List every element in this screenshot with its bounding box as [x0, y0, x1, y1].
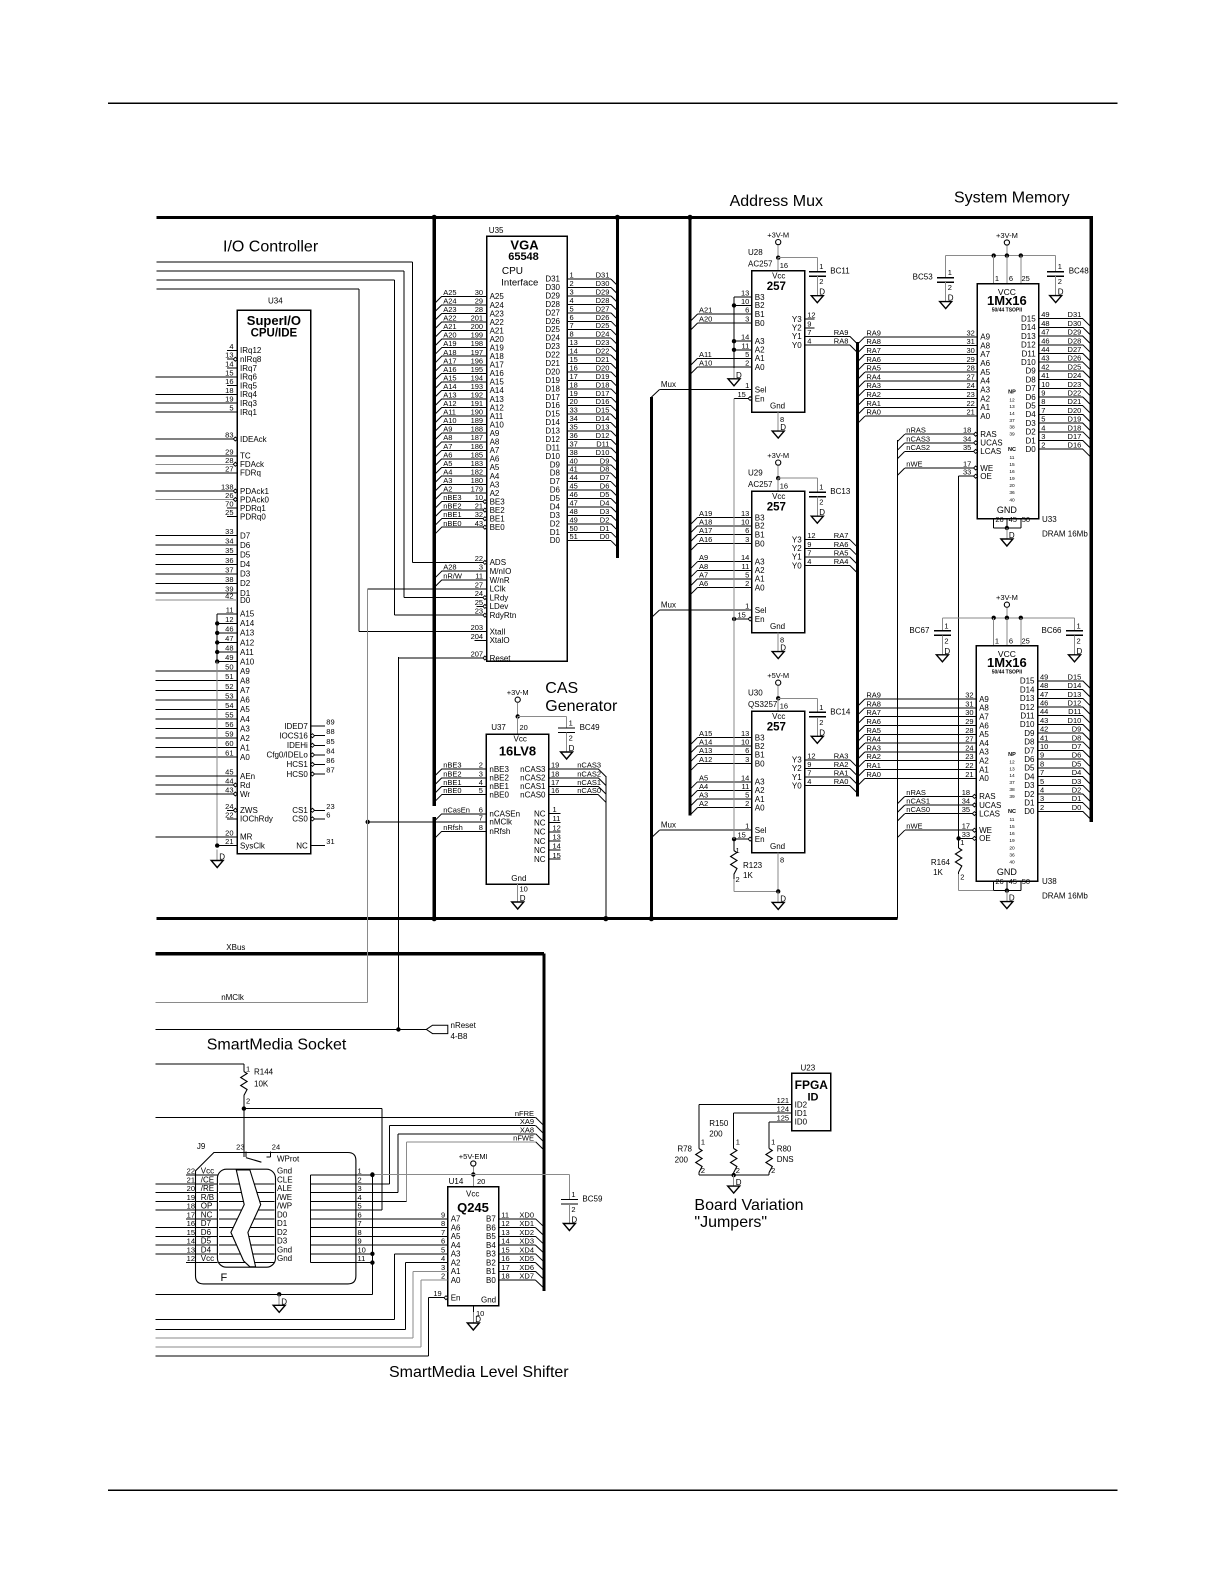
svg-text:nIRq8: nIRq8 [240, 355, 262, 364]
svg-text:6: 6 [358, 1210, 362, 1219]
U14 pin 5 A3 [441, 1245, 461, 1258]
svg-text:9: 9 [441, 1210, 445, 1219]
svg-text:NC: NC [534, 846, 546, 855]
svg-text:RA4: RA4 [866, 372, 881, 381]
svg-text:12: 12 [553, 823, 561, 832]
U28 pin 12 Y3 [792, 311, 816, 324]
U35 pin 50 D1 [550, 524, 618, 539]
svg-text:D: D [736, 1178, 742, 1187]
U38 pin 23 A2 net RA2 [857, 752, 989, 768]
U34 pin 87 HCS0 [286, 766, 334, 779]
U30 pin 15 En [732, 831, 765, 844]
svg-text:/WE: /WE [277, 1193, 292, 1202]
svg-text:D24: D24 [1068, 371, 1082, 380]
svg-text:Rd: Rd [240, 781, 250, 790]
svg-text:6: 6 [745, 526, 749, 535]
U34 pin 44 Rd [156, 777, 251, 790]
svg-text:A4: A4 [451, 1241, 461, 1250]
svg-text:RA5: RA5 [866, 726, 881, 735]
svg-text:D: D [475, 1315, 481, 1324]
svg-text:D7: D7 [240, 531, 251, 540]
svg-text:2: 2 [569, 734, 573, 743]
U33 pin 23 A2 net RA2 [857, 390, 990, 406]
svg-text:AEn: AEn [240, 772, 255, 781]
U38 pin 4 D2 net D2 [1024, 786, 1091, 803]
svg-text:OP: OP [201, 1202, 213, 1211]
svg-text:1: 1 [944, 621, 948, 630]
U35 pin 23 RdyRtn with wire from top [157, 280, 517, 620]
U28 pin 13 B3 [734, 289, 765, 302]
svg-text:27: 27 [965, 735, 973, 744]
svg-text:24: 24 [966, 381, 974, 390]
svg-text:RA8: RA8 [866, 699, 881, 708]
svg-text:nWE: nWE [906, 460, 922, 469]
svg-text:BE0: BE0 [490, 523, 506, 532]
svg-text:XD5: XD5 [519, 1254, 534, 1263]
chip U23 FPGA ID outline [792, 1064, 831, 1131]
svg-text:nR/W: nR/W [443, 572, 463, 581]
svg-text:5: 5 [441, 1245, 445, 1254]
svg-text:2: 2 [771, 1166, 775, 1175]
svg-text:42: 42 [1040, 725, 1048, 734]
svg-text:44: 44 [1041, 345, 1049, 354]
svg-text:RA6: RA6 [866, 355, 881, 364]
U34 pin 53 A6 [156, 691, 251, 704]
svg-text:U35: U35 [489, 226, 504, 235]
svg-text:Gnd: Gnd [277, 1167, 292, 1176]
svg-text:LClk: LClk [490, 585, 507, 594]
U34 pin 39 D1 [156, 585, 251, 598]
svg-text:ID0: ID0 [795, 1118, 808, 1127]
svg-text:22: 22 [965, 761, 973, 770]
svg-text:84: 84 [326, 746, 334, 755]
svg-text:16: 16 [225, 377, 233, 386]
svg-text:D27: D27 [1068, 345, 1082, 354]
wire U14 A0 from page edge [156, 1280, 448, 1347]
U33 pin 28 A5 net RA5 [857, 364, 990, 380]
svg-text:39: 39 [1009, 794, 1015, 800]
U30 pin 2 A0 net A2 [690, 799, 765, 815]
U35 pin 40 D9 [550, 456, 618, 471]
bus horizontal main (top) [157, 216, 1092, 219]
U14 pin 2 A0 [441, 1272, 461, 1285]
U28 pin 7 Y1 net RA9 [792, 328, 857, 344]
svg-text:Sel: Sel [755, 826, 767, 835]
svg-text:AC257: AC257 [748, 480, 773, 489]
title I/O Controller [223, 239, 319, 256]
U35 pin 45 D6 [550, 482, 618, 497]
U29 pin 11 A2 net A8 [690, 562, 765, 578]
svg-text:A6: A6 [699, 579, 708, 588]
svg-text:nBE0: nBE0 [489, 791, 509, 800]
svg-text:21: 21 [965, 770, 973, 779]
svg-text:NC: NC [201, 1210, 213, 1219]
svg-text:16: 16 [551, 786, 559, 795]
U35 pin 196 A17 net A17 [434, 356, 504, 372]
U38 pin 18 RAS net nRAS [897, 788, 995, 804]
svg-text:IDED7: IDED7 [284, 722, 308, 731]
svg-text:Sel: Sel [755, 606, 767, 615]
svg-text:A13: A13 [240, 629, 255, 638]
U38 pin 46 D12 net D12 [1020, 699, 1091, 716]
U35 pin 49 D2 [550, 515, 618, 530]
U38 pin 24 A3 net RA3 [857, 743, 989, 759]
svg-text:1: 1 [745, 381, 749, 390]
junction dots on main buses [432, 215, 693, 921]
U35 pin 47 D4 [550, 499, 618, 514]
svg-text:13: 13 [1009, 766, 1015, 772]
U30 pin 12 Y3 net RA3 [792, 751, 857, 767]
svg-text:nReset: nReset [451, 1021, 477, 1030]
svg-text:B2: B2 [486, 1258, 496, 1267]
wire J9 ground net [156, 1173, 375, 1297]
svg-text:10: 10 [1041, 380, 1049, 389]
U35 pin 21 BE2 net nBE2 [434, 502, 505, 518]
capacitor BC48 [1047, 256, 1089, 303]
svg-text:2: 2 [745, 579, 749, 588]
svg-text:28: 28 [965, 726, 973, 735]
svg-text:25: 25 [225, 508, 233, 517]
svg-text:22: 22 [187, 1167, 195, 1176]
svg-text:nCAS3: nCAS3 [520, 765, 546, 774]
U35 pin 11 W/nR net nR/W [434, 572, 510, 588]
svg-text:D30: D30 [1068, 319, 1082, 328]
svg-text:18: 18 [225, 386, 233, 395]
resistor R144 10K [156, 1064, 274, 1111]
U35 pin 36 D12 [545, 431, 617, 446]
svg-text:Mux: Mux [661, 821, 676, 830]
svg-text:15: 15 [737, 390, 745, 399]
svg-text:A9: A9 [979, 695, 989, 704]
svg-text:15: 15 [187, 1228, 195, 1237]
svg-text:5: 5 [1040, 777, 1044, 786]
svg-text:RA6: RA6 [866, 717, 881, 726]
svg-text:36: 36 [225, 556, 233, 565]
svg-text:10: 10 [741, 517, 749, 526]
U34 pin 18 IRq4 [156, 386, 258, 399]
U33 pin 24 A3 net RA3 [857, 381, 990, 397]
U29 pin 10 B2 net A18 [690, 517, 765, 533]
svg-text:LCAS: LCAS [980, 447, 1001, 456]
svg-text:4: 4 [807, 337, 811, 346]
svg-text:D: D [819, 508, 825, 517]
svg-text:U37: U37 [491, 723, 506, 732]
svg-text:2: 2 [960, 873, 964, 882]
svg-text:9: 9 [1040, 751, 1044, 760]
U34 pin 43 Wr [156, 786, 251, 799]
svg-text:A11: A11 [240, 648, 254, 657]
svg-text:1: 1 [960, 838, 964, 847]
capacitor BC14 [809, 698, 851, 743]
svg-text:A12: A12 [240, 638, 255, 647]
svg-text:+5V-EMI: +5V-EMI [459, 1152, 488, 1161]
svg-text:A3: A3 [980, 386, 990, 395]
U33 pin 18 RAS net nRAS [897, 426, 996, 442]
svg-text:6: 6 [326, 810, 330, 819]
U30 pin 4 Y0 net RA0 [792, 777, 857, 793]
U14 pin 15 B3 net XD4 [486, 1245, 544, 1262]
svg-text:1: 1 [819, 483, 823, 492]
svg-text:ID: ID [808, 1092, 819, 1104]
svg-text:3: 3 [479, 563, 483, 572]
svg-text:nFWE: nFWE [513, 1133, 534, 1142]
U23 pin 124 ID1 [734, 1105, 808, 1146]
svg-text:12: 12 [225, 615, 233, 624]
svg-text:Y0: Y0 [792, 341, 802, 350]
page frame bottom border [108, 1489, 1118, 1491]
svg-text:2: 2 [571, 1205, 575, 1214]
chip U37 16LV8 outline [486, 723, 548, 884]
svg-text:RA7: RA7 [866, 708, 881, 717]
svg-text:U38: U38 [1042, 877, 1057, 886]
svg-text:B1: B1 [755, 310, 765, 319]
U33 pin 29 A6 net RA6 [857, 355, 990, 371]
U14 pin 7 A5 [310, 1228, 461, 1241]
chip U28 257 outline [748, 248, 805, 412]
label U38 DRAM 16Mb [1042, 877, 1088, 901]
U37 pin 7 nMClk wire [366, 813, 514, 826]
svg-text:Vcc: Vcc [466, 1190, 479, 1199]
svg-text:26: 26 [995, 515, 1003, 524]
svg-text:15: 15 [501, 1245, 509, 1254]
svg-text:D7: D7 [1072, 742, 1082, 751]
svg-text:BC48: BC48 [1069, 267, 1090, 276]
svg-text:A0: A0 [755, 583, 765, 592]
J9 contact 7 D1 [277, 1219, 448, 1228]
svg-text:U33: U33 [1042, 515, 1057, 524]
U35 pin 180 A3 net A3 [434, 476, 500, 492]
power +3V-M for U38 [942, 593, 1074, 646]
U33 pin 42 D9 net D25 [1025, 362, 1091, 379]
U33 pin 2 D0 net D16 [1025, 441, 1091, 458]
svg-text:BC13: BC13 [830, 487, 851, 496]
U30 pin 7 Y1 net RA1 [792, 769, 857, 785]
svg-text:A5: A5 [980, 368, 990, 377]
svg-text:D6: D6 [201, 1228, 212, 1237]
svg-text:14: 14 [553, 842, 561, 851]
svg-text:A20: A20 [699, 315, 712, 324]
svg-text:A16: A16 [699, 535, 712, 544]
svg-text:46: 46 [1040, 699, 1048, 708]
svg-text:W/nR: W/nR [490, 576, 510, 585]
page frame top border [108, 102, 1118, 104]
svg-text:D: D [948, 294, 954, 303]
svg-text:PDRq0: PDRq0 [240, 512, 266, 521]
svg-text:16: 16 [780, 482, 788, 491]
svg-text:Vcc: Vcc [772, 271, 785, 280]
J9 pin 20 /RE [156, 1184, 218, 1193]
svg-text:1Mx16: 1Mx16 [987, 293, 1027, 308]
svg-text:Sel: Sel [755, 385, 767, 394]
svg-text:En: En [755, 835, 765, 844]
svg-text:D15: D15 [1020, 677, 1035, 686]
svg-text:CPU: CPU [502, 266, 523, 277]
U14 pin 18 B0 net XD7 [486, 1272, 544, 1289]
svg-text:29: 29 [966, 355, 974, 364]
svg-text:6: 6 [1009, 274, 1013, 283]
svg-text:A6: A6 [979, 721, 989, 730]
svg-text:DNS: DNS [777, 1155, 794, 1164]
svg-text:Vcc: Vcc [201, 1254, 214, 1263]
U14 pin 8 A6 [310, 1219, 461, 1232]
U29 pin 2 A0 net A6 [690, 579, 765, 595]
svg-text:8: 8 [479, 823, 483, 832]
svg-text:A3: A3 [451, 1250, 461, 1259]
svg-text:IRq3: IRq3 [240, 399, 257, 408]
svg-text:8: 8 [358, 1228, 362, 1237]
svg-text:D: D [944, 647, 950, 656]
U35 pin 7 D25 [545, 321, 617, 336]
svg-text:20: 20 [225, 828, 233, 837]
U35 pin 10 BE3 net nBE3 [434, 493, 505, 509]
svg-text:D2: D2 [1072, 786, 1082, 795]
svg-text:14: 14 [225, 360, 233, 369]
chip U34 SuperI/O outline [237, 297, 311, 854]
J9 contact 9 D3 [277, 1237, 448, 1246]
U34 pin 22 IOChRdy [225, 810, 273, 823]
U35 pin 37 D11 [546, 439, 617, 454]
svg-text:D: D [571, 1216, 577, 1225]
svg-text:1: 1 [819, 703, 823, 712]
svg-text:A1: A1 [979, 765, 989, 774]
svg-text:50/44 TSOPII: 50/44 TSOPII [992, 670, 1023, 676]
svg-text:D23: D23 [1068, 380, 1082, 389]
svg-text:D26: D26 [1068, 354, 1082, 363]
svg-text:IOCS16: IOCS16 [279, 732, 308, 741]
svg-text:D2: D2 [1024, 790, 1035, 799]
svg-text:43: 43 [475, 519, 483, 528]
svg-text:NC: NC [534, 828, 546, 837]
svg-text:D5: D5 [1024, 764, 1035, 773]
resistor R150 200 [709, 1119, 740, 1175]
U29 pin 1 Sel net Mux [651, 601, 766, 618]
U35 pin 2 D30 [545, 279, 617, 294]
capacitor BC67 [909, 618, 951, 662]
svg-text:D14: D14 [1020, 685, 1035, 694]
svg-text:nRfsh: nRfsh [489, 827, 510, 836]
svg-text:19: 19 [225, 395, 233, 404]
wire nCAS bus vertical x=606 [605, 776, 607, 919]
U37 pin 3 nBE2 [434, 769, 509, 785]
svg-text:48: 48 [225, 644, 233, 653]
svg-text:31: 31 [326, 837, 334, 846]
svg-text:RA1: RA1 [866, 761, 881, 770]
svg-text:31: 31 [965, 699, 973, 708]
svg-text:43: 43 [1041, 354, 1049, 363]
svg-text:A15: A15 [240, 610, 255, 619]
svg-text:Reset: Reset [490, 654, 512, 663]
svg-text:7: 7 [358, 1219, 362, 1228]
svg-text:56: 56 [225, 720, 233, 729]
U34 pin 23 CS1 [292, 802, 334, 815]
svg-text:R78: R78 [677, 1145, 692, 1154]
svg-text:207: 207 [471, 650, 484, 659]
U38 pin 33 OE [959, 830, 991, 843]
svg-text:A4: A4 [979, 739, 989, 748]
svg-text:B0: B0 [486, 1276, 496, 1285]
U29 pin 7 Y1 net RA5 [792, 548, 857, 564]
U34 pin 21 SysClk [215, 837, 266, 850]
svg-text:45: 45 [1009, 515, 1017, 524]
svg-text:37: 37 [1009, 418, 1015, 424]
svg-text:10K: 10K [254, 1080, 269, 1089]
svg-text:18: 18 [187, 1202, 195, 1211]
svg-text:XD2: XD2 [519, 1228, 534, 1237]
svg-text:9: 9 [1041, 389, 1045, 398]
svg-text:50: 50 [1022, 877, 1030, 886]
svg-text:2: 2 [944, 636, 948, 645]
svg-text:7: 7 [1040, 768, 1044, 777]
U34 pin 11 A15 [217, 605, 255, 618]
svg-text:85: 85 [326, 737, 334, 746]
svg-text:10: 10 [741, 738, 749, 747]
svg-text:A0: A0 [240, 753, 250, 762]
svg-text:7: 7 [441, 1228, 445, 1237]
U38 pin 32 A9 net RA9 [857, 691, 989, 707]
U37 pin 6 nCASEn net nCasEn [434, 805, 520, 821]
svg-text:B0: B0 [755, 319, 765, 328]
U33 pin 17 WE net nWE [897, 460, 993, 476]
svg-text:2: 2 [1040, 803, 1044, 812]
U34 pin 42 D0 [156, 592, 251, 605]
svg-text:D25: D25 [1068, 362, 1082, 371]
U35 pin 207 Reset wire to nReset [398, 650, 511, 663]
svg-text:30: 30 [966, 346, 974, 355]
svg-text:D13: D13 [1020, 694, 1035, 703]
svg-text:D1: D1 [277, 1219, 288, 1228]
connector J9 SmartMedia socket outline [196, 1142, 356, 1284]
svg-text:2: 2 [1058, 277, 1062, 286]
resistor R78 200 [675, 1138, 705, 1176]
svg-text:47: 47 [225, 634, 233, 643]
svg-text:Address Mux: Address Mux [730, 193, 823, 210]
svg-text:QS3257: QS3257 [748, 700, 778, 709]
svg-text:D10: D10 [1068, 716, 1082, 725]
U35 pin 3 D29 [545, 288, 617, 303]
U29 ground pin 8 [772, 633, 786, 659]
svg-text:BC53: BC53 [913, 273, 934, 282]
U38 pin 47 D13 net D13 [1020, 690, 1091, 707]
svg-text:NP: NP [1008, 390, 1016, 396]
svg-text:RA3: RA3 [866, 381, 881, 390]
svg-text:A7: A7 [980, 350, 990, 359]
svg-text:D10: D10 [1021, 358, 1036, 367]
svg-text:WProt: WProt [277, 1155, 300, 1164]
svg-text:D2: D2 [1025, 428, 1036, 437]
svg-text:D4: D4 [240, 560, 251, 569]
bus vertical address x=690 [688, 216, 691, 816]
svg-text:9: 9 [358, 1237, 362, 1246]
J9 pin 14 D5 [156, 1237, 218, 1246]
U35 pin 198 A19 net A19 [434, 339, 504, 355]
U35 pin 201 A22 net A22 [434, 314, 504, 330]
title SmartMedia Level Shifter [389, 1364, 569, 1381]
U35 pin 15 D21 [545, 355, 617, 370]
svg-text:D6: D6 [1024, 755, 1035, 764]
svg-text:D14: D14 [1021, 323, 1036, 332]
svg-text:203: 203 [471, 623, 484, 632]
U30 pin 3 B0 net A12 [690, 755, 765, 771]
svg-text:XtalI: XtalI [490, 627, 506, 636]
svg-text:24: 24 [965, 743, 973, 752]
svg-text:D15: D15 [1068, 672, 1082, 681]
svg-text:4: 4 [441, 1254, 445, 1263]
U33 pin 4 D2 net D18 [1025, 423, 1091, 440]
U38 pin 8 D5 net D5 [1024, 759, 1091, 776]
svg-text:11: 11 [501, 1210, 509, 1219]
U34 pin 50 A9 [156, 663, 251, 676]
U34 pin 89 IDED7 [284, 718, 334, 731]
